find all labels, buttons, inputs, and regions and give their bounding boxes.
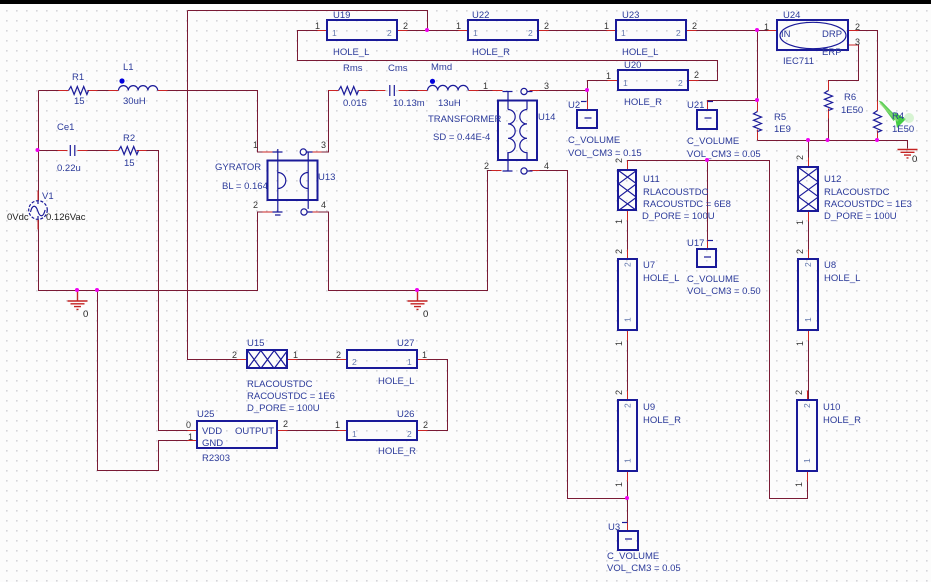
svg-text:R1: R1 bbox=[72, 72, 84, 83]
svg-text:2: 2 bbox=[352, 357, 357, 367]
wire Rms to Cms bbox=[359, 90, 386, 92]
wire U17 stub from rail bbox=[707, 161, 709, 250]
svg-text:HOLE_L: HOLE_L bbox=[643, 273, 679, 284]
svg-text:U25: U25 bbox=[197, 409, 214, 420]
svg-text:U12: U12 bbox=[824, 174, 841, 185]
svg-text:0: 0 bbox=[423, 309, 428, 320]
svg-text:U17: U17 bbox=[687, 238, 704, 249]
svg-text:1: 1 bbox=[253, 140, 258, 150]
ground 0 middle bbox=[408, 291, 429, 321]
wire U24 pin2 down to R4 bbox=[849, 31, 878, 111]
svg-text:Mmd: Mmd bbox=[431, 62, 452, 73]
c_volume U2 bbox=[568, 100, 642, 159]
hole cell U7 bbox=[614, 249, 679, 346]
svg-text:2: 2 bbox=[423, 420, 428, 430]
svg-text:2: 2 bbox=[676, 28, 681, 38]
svg-text:U14: U14 bbox=[538, 112, 555, 123]
svg-text:2: 2 bbox=[795, 155, 805, 160]
svg-text:1: 1 bbox=[614, 482, 624, 487]
svg-text:13uH: 13uH bbox=[438, 98, 461, 109]
wire U21 branch bbox=[708, 101, 758, 111]
wire top row V1 to R1 bbox=[39, 90, 69, 92]
resistor R5 bbox=[754, 112, 791, 136]
svg-text:2: 2 bbox=[283, 419, 288, 429]
wire top rail from long vertical to U19 output junction bbox=[188, 11, 428, 31]
wire L1 to gyrator pin1 bbox=[158, 91, 273, 153]
hole cell U8 bbox=[795, 249, 860, 346]
svg-text:0.015: 0.015 bbox=[343, 98, 367, 109]
hole cell U26 bbox=[335, 409, 428, 457]
svg-text:U23: U23 bbox=[622, 10, 639, 21]
wire transformer pin3 to junction to U20 pin1 bbox=[530, 81, 618, 91]
svg-text:30uH: 30uH bbox=[123, 96, 146, 107]
svg-text:U26: U26 bbox=[397, 409, 414, 420]
svg-text:RLACOUSTDC: RLACOUSTDC bbox=[247, 379, 313, 390]
capacitor Ce1 bbox=[57, 122, 81, 174]
svg-text:Ce1: Ce1 bbox=[57, 122, 74, 133]
wire Cms to Mmd bbox=[399, 90, 428, 92]
svg-text:1: 1 bbox=[473, 28, 478, 38]
svg-text:2: 2 bbox=[336, 350, 341, 360]
svg-text:IN: IN bbox=[781, 29, 791, 40]
svg-text:2: 2 bbox=[484, 161, 489, 171]
svg-text:3: 3 bbox=[544, 81, 549, 91]
wire U3 stub bbox=[627, 499, 629, 532]
svg-text:2: 2 bbox=[528, 28, 533, 38]
svg-text:2: 2 bbox=[794, 390, 804, 395]
hole cell U20 bbox=[606, 60, 699, 108]
svg-text:1: 1 bbox=[795, 220, 805, 225]
wire U26 pin1 to U25 output bbox=[278, 430, 348, 432]
c_volume U17 bbox=[687, 238, 761, 297]
amplifier U25 bbox=[186, 409, 288, 464]
svg-text:2: 2 bbox=[614, 158, 624, 163]
ground 0 left bbox=[68, 291, 89, 321]
wire U11 bottom to U7 top bbox=[627, 211, 629, 260]
svg-text:1: 1 bbox=[614, 341, 624, 346]
svg-text:U27: U27 bbox=[397, 338, 414, 349]
svg-text:C_VOLUME: C_VOLUME bbox=[687, 136, 739, 147]
svg-text:L1: L1 bbox=[123, 62, 134, 73]
wire U8 bottom to U10 top bbox=[808, 331, 810, 401]
svg-text:VOL_CM3 = 0.15: VOL_CM3 = 0.15 bbox=[568, 148, 642, 159]
svg-text:0Vdc: 0Vdc bbox=[7, 212, 29, 223]
svg-text:U11: U11 bbox=[643, 174, 660, 185]
wire R5 bottom to rail bbox=[757, 130, 759, 141]
svg-text:2: 2 bbox=[678, 78, 683, 88]
svg-text:1: 1 bbox=[803, 317, 813, 322]
svg-text:1: 1 bbox=[422, 350, 427, 360]
svg-text:RLACOUSTDC: RLACOUSTDC bbox=[824, 187, 890, 198]
svg-text:1: 1 bbox=[352, 429, 357, 439]
capacitor Cms bbox=[388, 63, 425, 109]
title bar bbox=[0, 0, 931, 4]
wire U19 pin1 loop down to rail y60 over to U20 pin2 bbox=[298, 31, 718, 81]
svg-text:DRP: DRP bbox=[822, 29, 842, 40]
wire vertical from U24.1 junction down to R5 bbox=[757, 31, 759, 112]
svg-text:0: 0 bbox=[186, 420, 191, 430]
hole cell U10 bbox=[794, 390, 861, 487]
svg-text:U3: U3 bbox=[608, 522, 620, 533]
wire U7 bottom to U9 top bbox=[627, 331, 629, 401]
wire U9 bottom to junction bbox=[627, 472, 629, 499]
svg-text:1: 1 bbox=[332, 28, 337, 38]
wire Ce1 to R2 bbox=[78, 150, 119, 152]
svg-text:BL = 0.164: BL = 0.164 bbox=[222, 181, 268, 192]
svg-text:1E50: 1E50 bbox=[892, 124, 914, 135]
svg-text:RACOUSTDC = 6E8: RACOUSTDC = 6E8 bbox=[643, 199, 731, 210]
svg-text:D_PORE = 100U: D_PORE = 100U bbox=[247, 403, 320, 414]
svg-text:HOLE_L: HOLE_L bbox=[824, 273, 860, 284]
wire R4 bottom to rail bbox=[877, 131, 879, 141]
svg-text:2: 2 bbox=[803, 262, 813, 267]
svg-text:2: 2 bbox=[403, 21, 408, 31]
svg-text:4: 4 bbox=[544, 161, 549, 171]
svg-text:U20: U20 bbox=[624, 60, 641, 71]
svg-text:1: 1 bbox=[315, 21, 320, 31]
acoustic resistance U12 bbox=[795, 155, 912, 225]
svg-text:0: 0 bbox=[83, 309, 88, 320]
resistor R2 bbox=[119, 133, 139, 169]
svg-text:HOLE_R: HOLE_R bbox=[624, 97, 662, 108]
wire U19 pin2 to U22 pin1 bbox=[398, 30, 469, 32]
svg-text:U9: U9 bbox=[643, 402, 655, 413]
svg-text:RLACOUSTDC: RLACOUSTDC bbox=[643, 187, 709, 198]
inductor L1 bbox=[119, 62, 158, 107]
svg-text:U10: U10 bbox=[823, 402, 840, 413]
hole cell U23 bbox=[604, 10, 697, 58]
wire R6 bottom to rail bbox=[828, 109, 830, 141]
svg-text:HOLE_L: HOLE_L bbox=[622, 47, 658, 58]
svg-text:U22: U22 bbox=[472, 10, 489, 21]
svg-text:1: 1 bbox=[764, 22, 769, 32]
svg-text:3: 3 bbox=[321, 140, 326, 150]
svg-text:1: 1 bbox=[483, 81, 488, 91]
svg-text:V1: V1 bbox=[42, 191, 54, 202]
svg-text:0.22u: 0.22u bbox=[57, 163, 81, 174]
svg-text:2: 2 bbox=[623, 262, 633, 267]
svg-text:2: 2 bbox=[795, 249, 805, 254]
hole cell U9 bbox=[614, 390, 681, 487]
svg-text:U15: U15 bbox=[247, 338, 264, 349]
svg-text:U24: U24 bbox=[783, 10, 800, 21]
resistor R4 bbox=[874, 111, 915, 136]
svg-text:1: 1 bbox=[623, 317, 633, 322]
svg-text:0.126Vac: 0.126Vac bbox=[46, 212, 86, 223]
svg-text:2: 2 bbox=[855, 22, 860, 32]
svg-text:HOLE_R: HOLE_R bbox=[378, 446, 416, 457]
resistor R1 bbox=[69, 72, 89, 107]
svg-text:ERP: ERP bbox=[822, 47, 842, 58]
svg-text:RACOUSTDC = 1E3: RACOUSTDC = 1E3 bbox=[824, 199, 912, 210]
svg-text:VOL_CM3 = 0.50: VOL_CM3 = 0.50 bbox=[687, 286, 761, 297]
wire Ce1 branch bbox=[39, 150, 68, 152]
svg-text:2: 2 bbox=[692, 21, 697, 31]
svg-text:1: 1 bbox=[623, 458, 633, 463]
svg-text:U7: U7 bbox=[643, 260, 655, 271]
svg-text:2: 2 bbox=[407, 429, 412, 439]
wire V1 bottom to ground rail to gyrator pin2 bbox=[39, 212, 273, 291]
svg-text:R6: R6 bbox=[844, 92, 856, 103]
svg-text:1: 1 bbox=[614, 219, 624, 224]
svg-text:Rms: Rms bbox=[343, 63, 363, 74]
svg-text:VOL_CM3 = 0.05: VOL_CM3 = 0.05 bbox=[607, 563, 681, 574]
wire gyrator pin3 up to acoustic chain bbox=[312, 91, 339, 153]
svg-text:R5: R5 bbox=[774, 112, 786, 123]
svg-text:1: 1 bbox=[293, 350, 298, 360]
svg-text:U8: U8 bbox=[824, 260, 836, 271]
svg-text:RACOUSTDC = 1E6: RACOUSTDC = 1E6 bbox=[247, 391, 335, 402]
svg-text:D_PORE = 100U: D_PORE = 100U bbox=[642, 211, 715, 222]
svg-text:1: 1 bbox=[335, 420, 340, 430]
svg-text:GND: GND bbox=[202, 438, 223, 449]
resistor R6 bbox=[825, 91, 864, 117]
svg-text:1: 1 bbox=[623, 78, 628, 88]
wire transformer pin4 down around to U9 bottom junction bbox=[530, 171, 628, 499]
acoustic coupler U24 bbox=[764, 10, 860, 67]
svg-text:HOLE_R: HOLE_R bbox=[472, 47, 510, 58]
wire U2 stub from junction bbox=[587, 91, 589, 111]
svg-text:1: 1 bbox=[794, 482, 804, 487]
wire U25 GND return loop bbox=[98, 291, 198, 471]
svg-text:HOLE_L: HOLE_L bbox=[333, 47, 369, 58]
wire rail y160 from U11 top over and down to U10 bottom loop bbox=[628, 161, 808, 499]
svg-text:R2303: R2303 bbox=[202, 453, 230, 464]
svg-text:2: 2 bbox=[614, 249, 624, 254]
wire right ground rail y140 bbox=[758, 141, 908, 149]
svg-text:2: 2 bbox=[694, 70, 699, 80]
wire gyrator pin4 to bottom rail up to transformer pin2 bbox=[309, 171, 502, 291]
svg-text:15: 15 bbox=[124, 158, 135, 169]
svg-text:R2: R2 bbox=[123, 133, 135, 144]
svg-text:D_PORE = 100U: D_PORE = 100U bbox=[824, 211, 897, 222]
svg-text:1: 1 bbox=[188, 432, 193, 442]
svg-text:U21: U21 bbox=[687, 100, 704, 111]
wire V1 top bbox=[38, 91, 40, 201]
svg-text:2: 2 bbox=[544, 21, 549, 31]
svg-text:3: 3 bbox=[855, 37, 860, 47]
svg-text:1: 1 bbox=[606, 71, 611, 81]
hole cell U19 bbox=[315, 10, 408, 58]
svg-text:10.13m: 10.13m bbox=[393, 98, 425, 109]
wire U15 to U27 bbox=[288, 359, 348, 361]
svg-text:15: 15 bbox=[74, 96, 85, 107]
svg-text:VOL_CM3 = 0.05: VOL_CM3 = 0.05 bbox=[687, 149, 761, 160]
svg-text:HOLE_L: HOLE_L bbox=[378, 376, 414, 387]
svg-text:IEC711: IEC711 bbox=[783, 56, 814, 67]
ground 0 right bbox=[898, 150, 918, 166]
wire U23 pin2 to U24 pin1 bbox=[687, 30, 778, 32]
svg-text:1: 1 bbox=[604, 21, 609, 31]
svg-text:HOLE_R: HOLE_R bbox=[643, 415, 681, 426]
svg-text:1: 1 bbox=[795, 341, 805, 346]
wire U12 top stub from rail y140 bbox=[808, 141, 810, 168]
svg-text:1: 1 bbox=[456, 21, 461, 31]
pin stubs (red) bbox=[38, 31, 878, 532]
svg-text:1: 1 bbox=[621, 28, 626, 38]
acoustic resistance U15 bbox=[232, 338, 335, 414]
voltage source V1 bbox=[7, 191, 86, 223]
svg-text:0: 0 bbox=[912, 154, 917, 165]
svg-text:C_VOLUME: C_VOLUME bbox=[687, 274, 739, 285]
hole cell U27 bbox=[336, 338, 427, 387]
svg-text:C_VOLUME: C_VOLUME bbox=[568, 135, 620, 146]
wire R1 to L1 bbox=[88, 90, 119, 92]
svg-text:HOLE_R: HOLE_R bbox=[823, 415, 861, 426]
svg-text:TRANSFORMER: TRANSFORMER bbox=[428, 114, 502, 125]
svg-text:1: 1 bbox=[407, 357, 412, 367]
svg-text:SD = 0.44E-4: SD = 0.44E-4 bbox=[433, 132, 490, 143]
wire Mmd to transformer pin1 bbox=[469, 90, 503, 92]
svg-text:2: 2 bbox=[387, 28, 392, 38]
resistor Rms bbox=[339, 63, 367, 109]
svg-text:2: 2 bbox=[623, 403, 633, 408]
wire U22 pin2 to U23 pin1 bbox=[539, 30, 617, 32]
svg-text:C_VOLUME: C_VOLUME bbox=[607, 551, 659, 562]
wire U27 pin1 down to U26 pin2 bbox=[418, 360, 448, 431]
transformer U14 bbox=[428, 81, 555, 174]
svg-text:U2: U2 bbox=[568, 100, 580, 111]
svg-text:2: 2 bbox=[802, 403, 812, 408]
mouse cursor bbox=[879, 101, 915, 129]
c_volume U21 bbox=[687, 100, 761, 160]
hole cell U22 bbox=[456, 10, 549, 58]
inductor Mmd bbox=[428, 62, 469, 109]
svg-text:1E9: 1E9 bbox=[774, 124, 791, 135]
gyrator U13 bbox=[215, 140, 335, 215]
wire R2 right down to U25 VDD bbox=[137, 151, 198, 431]
svg-text:2: 2 bbox=[232, 350, 237, 360]
svg-text:U19: U19 bbox=[333, 10, 350, 21]
svg-text:VDD: VDD bbox=[202, 426, 222, 437]
svg-text:1: 1 bbox=[802, 458, 812, 463]
svg-text:U13: U13 bbox=[318, 172, 335, 183]
wire U12 bottom to U8 top bbox=[808, 212, 810, 260]
svg-text:1E50: 1E50 bbox=[841, 105, 863, 116]
svg-text:2: 2 bbox=[253, 200, 258, 210]
wire long left vertical down to U15 row bbox=[188, 11, 248, 360]
acoustic resistance U11 bbox=[614, 158, 731, 224]
svg-text:2: 2 bbox=[614, 390, 624, 395]
c_volume U3 bbox=[607, 522, 681, 574]
svg-text:4: 4 bbox=[321, 200, 326, 210]
svg-text:GYRATOR: GYRATOR bbox=[215, 162, 261, 173]
svg-text:Cms: Cms bbox=[388, 63, 408, 74]
svg-text:OUTPUT: OUTPUT bbox=[235, 426, 274, 437]
svg-text:R4: R4 bbox=[892, 111, 904, 122]
wire U24 pin3 down to R6 bbox=[829, 45, 859, 91]
